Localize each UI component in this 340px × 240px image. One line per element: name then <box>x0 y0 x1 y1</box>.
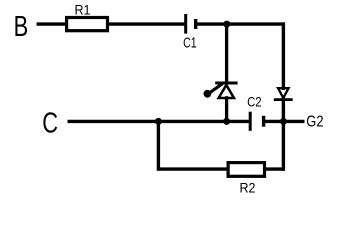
svg-text:B: B <box>14 11 29 43</box>
wire B to R1 <box>37 22 69 25</box>
node junction dot on C line (left, to R2 loop) <box>155 118 162 125</box>
svg-text:C2: C2 <box>247 93 262 109</box>
diode triangle <box>278 88 289 98</box>
svg-text:R1: R1 <box>75 2 91 18</box>
wire C horizontal line <box>68 120 251 123</box>
node junction dot top (C1 line / SCR branch) <box>223 21 230 28</box>
wire left vertical of R2 loop <box>157 121 160 170</box>
node junction dot on G2 line (right vertical) <box>280 118 287 125</box>
wire C1 to top-right corner <box>196 22 285 25</box>
node junction dot on C line (SCR branch) <box>223 118 230 125</box>
resistor R2 <box>228 163 264 177</box>
wire bottom to R2 <box>157 167 228 170</box>
wire SCR to C line <box>225 98 228 123</box>
wire C2 to G2 <box>264 120 305 123</box>
svg-text:C: C <box>42 107 58 139</box>
wire right vertical (corner to R2 right) <box>282 22 285 170</box>
wire SCR anode branch down from top node <box>225 24 228 83</box>
SCR gate terminal dot <box>204 90 212 98</box>
SCR gate lead <box>208 84 223 94</box>
wire stub into SCR triangle <box>225 96 228 99</box>
capacitor C1 left plate <box>184 14 187 34</box>
wire stub into diode triangle <box>282 88 285 90</box>
SCR cathode bar <box>215 82 237 85</box>
wire R1 to C1 <box>108 22 185 25</box>
diode cathode bar <box>274 98 293 101</box>
capacitor C1 right plate <box>194 19 197 29</box>
resistor R1 <box>67 18 108 31</box>
capacitor C2 right plate <box>262 116 265 127</box>
svg-text:G2: G2 <box>306 113 323 130</box>
wire R2 to right vertical <box>265 167 285 170</box>
svg-text:R2: R2 <box>240 180 256 196</box>
SCR triangle <box>219 85 234 98</box>
capacitor C2 left plate <box>249 112 252 131</box>
svg-text:C1: C1 <box>183 36 197 52</box>
